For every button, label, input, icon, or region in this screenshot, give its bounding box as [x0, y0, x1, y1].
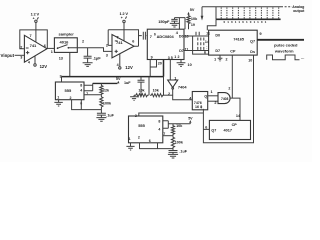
svg-text:7: 7 — [150, 35, 152, 39]
wire serial output Q7 pin 9 thick — [257, 39, 304, 41]
resistor R4 22k — [100, 83, 110, 95]
wire ADC pins 3 5 down to inverter — [169, 60, 171, 81]
annotation pulse coded waveform — [267, 43, 305, 61]
power -12V supply U2 pin 4 — [117, 54, 133, 70]
svg-text:pulse coded: pulse coded — [274, 43, 298, 48]
svg-text:Q: Q — [204, 95, 207, 99]
svg-text:6: 6 — [204, 50, 206, 54]
svg-text:6: 6 — [149, 139, 151, 143]
svg-text:4: 4 — [158, 127, 160, 131]
ground divider rail — [130, 95, 138, 100]
svg-text:20: 20 — [158, 62, 162, 66]
wire feedback loop U1 output to pin 2 — [20, 30, 48, 49]
svg-text:output: output — [293, 9, 305, 13]
svg-text:D7: D7 — [215, 49, 220, 53]
svg-text:5V: 5V — [116, 77, 121, 81]
capacitor C2 coupling — [143, 32, 147, 40]
bus outline box — [193, 36, 209, 54]
svg-text:13: 13 — [59, 57, 63, 61]
wire 555 pin 3 stub — [61, 77, 63, 82]
ground C5 — [168, 154, 178, 158]
svg-text:2: 2 — [228, 86, 230, 90]
pin 1 ground of 74165 — [214, 55, 222, 61]
svg-text:6: 6 — [132, 39, 134, 43]
wire 555 pins 8 4 to 5V — [84, 83, 93, 90]
wire ADC pin 20 — [150, 60, 156, 68]
svg-text:1: 1 — [174, 55, 176, 59]
power -12V supply U1 pin 4 — [28, 56, 47, 69]
capacitor C3 150pF — [158, 18, 178, 24]
svg-text:555: 555 — [138, 123, 145, 128]
svg-text:10k: 10k — [191, 17, 198, 21]
ground for C3 — [170, 23, 179, 27]
svg-text:2: 2 — [168, 92, 170, 96]
svg-text:3: 3 — [168, 56, 170, 60]
svg-text:3: 3 — [20, 55, 22, 59]
svg-text:10: 10 — [188, 63, 192, 67]
svg-text:CP: CP — [230, 49, 236, 53]
wire AND gate input 2 — [208, 100, 218, 102]
svg-text:8: 8 — [80, 84, 82, 88]
svg-text:1: 1 — [57, 96, 59, 100]
svg-text:2: 2 — [214, 101, 216, 105]
svg-text:4016: 4016 — [60, 40, 70, 45]
wire U2 output up to coupling cap — [134, 36, 142, 47]
svg-text:10k: 10k — [138, 88, 145, 92]
timer U10 555 second — [129, 116, 166, 143]
svg-text:7404: 7404 — [178, 85, 187, 90]
op-amp U1 741 — [20, 34, 47, 62]
svg-text:150pF: 150pF — [158, 19, 170, 24]
wire 555 second pin 7 — [163, 135, 173, 137]
wire U1 output to 4016 pin 1 — [47, 47, 54, 49]
svg-text:1: 1 — [211, 90, 213, 94]
power 5V supply second 555 — [168, 117, 193, 124]
ground 555 pin 1 — [54, 100, 62, 106]
svg-text:waveform: waveform — [274, 49, 294, 54]
counter U8 4017 — [209, 120, 250, 139]
svg-text::: : — [206, 46, 207, 50]
svg-text:741: 741 — [30, 43, 37, 48]
wire 4017 Q7 to 7476 K loop and 74165 Ds — [203, 55, 253, 143]
wire 555 second pins 8 4 tie — [163, 121, 169, 129]
resistor R3 10k horizontal — [150, 88, 164, 96]
wire data bus D7 — [184, 50, 209, 52]
ground C4 — [96, 118, 106, 122]
svg-text:.1uF: .1uF — [179, 150, 187, 154]
resistor R6 10k second — [171, 124, 183, 136]
svg-text:555: 555 — [65, 88, 72, 93]
svg-text:100k: 100k — [103, 102, 112, 106]
svg-text:CP: CP — [232, 123, 238, 127]
svg-text:9: 9 — [151, 55, 153, 59]
svg-text:D7: D7 — [179, 49, 184, 53]
shift register U5 74165 — [206, 30, 257, 55]
svg-text:74165: 74165 — [233, 37, 244, 41]
power 5V supply 555 first — [116, 77, 121, 83]
wire 555 second pins 2 6 loop — [140, 143, 174, 149]
wire 74165 CP pin 2 down to gate output — [231, 55, 233, 98]
svg-text:1: 1 — [51, 50, 53, 54]
wire 555 pin 7 to resistor junction — [84, 94, 101, 96]
svg-text:.1µF: .1µF — [93, 56, 102, 61]
svg-text:4: 4 — [117, 63, 119, 67]
svg-text:5: 5 — [171, 56, 173, 60]
svg-text:10k: 10k — [176, 124, 183, 128]
svg-text:.1uF: .1uF — [106, 114, 114, 118]
wire 4016 output to op-amp U2 — [68, 48, 112, 52]
svg-text:Vinput: Vinput — [1, 53, 15, 58]
svg-text:+: + — [121, 16, 123, 20]
wire Vinput to op-amp U1 pin 3 — [15, 54, 25, 56]
svg-text:4017: 4017 — [224, 129, 232, 133]
inverter U4 7404 — [168, 76, 188, 96]
timer U9 555 first — [55, 74, 88, 105]
wire 7476 Q to AND gate input 1 — [208, 95, 218, 97]
svg-text:4: 4 — [28, 61, 30, 65]
svg-text:22k: 22k — [103, 89, 110, 93]
svg-text:100k: 100k — [175, 141, 184, 145]
wire 555 pins 2 6 loop — [72, 100, 102, 110]
svg-text:6: 6 — [44, 44, 46, 48]
svg-text:Q7: Q7 — [250, 39, 255, 43]
flip-flop U6 7476 — [192, 92, 207, 110]
ground 555 second pin 1 — [126, 143, 134, 150]
svg-text:2: 2 — [70, 96, 72, 100]
wire data bus D0 — [184, 35, 209, 37]
power +12V supply U1 pin 7 — [31, 12, 40, 42]
wire AND output to 4017 CP pin 14 — [230, 98, 240, 120]
wire ADC clock node pin 4 — [175, 18, 186, 30]
svg-text:7408: 7408 — [221, 97, 229, 101]
ground ADC pins 1 2 10 — [177, 60, 192, 68]
wire ADC pin 9 down to clock line — [149, 60, 151, 77]
capacitor C6 1uF bypass — [124, 77, 145, 96]
svg-text:4: 4 — [80, 89, 82, 93]
svg-text:D0: D0 — [215, 33, 220, 37]
wire divider vertical left — [148, 77, 150, 96]
wire 7404 output to 7476 pin 4 — [173, 89, 193, 100]
svg-text:+: + — [33, 17, 35, 21]
wire waveform jog to 74165 — [207, 19, 216, 30]
svg-text:sampler: sampler — [59, 31, 75, 36]
svg-text:5V: 5V — [190, 8, 195, 12]
svg-text:010110101101: 010110101101 — [224, 20, 269, 24]
capacitor C4 .1uF — [97, 110, 115, 118]
wire thick clock line 555 pin3 to ADC pin 3 — [62, 60, 164, 77]
ground for C1 — [83, 63, 93, 67]
svg-text:7: 7 — [30, 34, 32, 38]
power 5V for ADC clock resistor — [187, 8, 195, 16]
ADC U3 ADC0804 — [147, 29, 184, 65]
svg-text:12V: 12V — [125, 65, 133, 70]
svg-text:2: 2 — [226, 57, 228, 61]
analog switch 4016 sampler — [51, 31, 84, 60]
svg-text:1uF: 1uF — [124, 81, 131, 85]
capacitor C1 .1uF hold — [84, 48, 102, 63]
svg-text:2: 2 — [82, 39, 84, 43]
svg-text:Q7: Q7 — [211, 129, 216, 133]
resistor R1 10k ADC clock — [187, 16, 198, 30]
AND gate U7 7408 — [218, 93, 230, 104]
svg-text:1: 1 — [214, 57, 216, 61]
svg-text:10k: 10k — [153, 88, 160, 92]
resistor R5 100k — [100, 95, 112, 109]
svg-text:D0: D0 — [179, 35, 184, 39]
wire ADC pin 3 vertical through clock line to rail — [163, 77, 165, 96]
svg-text:1: 1 — [174, 76, 176, 80]
resistor R2 10k horizontal — [134, 88, 148, 96]
svg-text:5V: 5V — [188, 117, 193, 121]
power +12V supply U2 pin 7 — [120, 11, 129, 41]
svg-text:8: 8 — [158, 120, 160, 124]
op-amp U2 741 — [106, 35, 135, 58]
wire 4016 pin 13 control line down to clock line — [69, 52, 71, 76]
wire rail to inverter output — [164, 94, 173, 96]
svg-text:2: 2 — [138, 136, 140, 140]
capacitor C5 .1uF second — [169, 149, 188, 155]
svg-text:12V: 12V — [40, 64, 48, 69]
svg-text:2: 2 — [178, 55, 180, 59]
bus abbreviated lines — [198, 38, 204, 51]
annotation analog waveform top — [201, 5, 305, 24]
svg-text:19: 19 — [191, 23, 195, 27]
svg-text:...: ... — [301, 55, 304, 60]
wire 555 timer2 pin 3 clock line — [139, 113, 204, 116]
svg-text:1: 1 — [129, 137, 131, 141]
svg-text:Ds: Ds — [250, 50, 255, 54]
svg-text:11: 11 — [206, 31, 210, 35]
svg-text:3: 3 — [106, 54, 108, 58]
wire feedback loop U2 output to pin 2 — [108, 30, 138, 46]
svg-text:7: 7 — [117, 35, 119, 39]
svg-text:10: 10 — [248, 59, 252, 63]
svg-text:16: 16 — [195, 105, 199, 109]
resistor R7 100k second — [171, 136, 183, 149]
svg-text:ADC0804: ADC0804 — [157, 34, 175, 39]
